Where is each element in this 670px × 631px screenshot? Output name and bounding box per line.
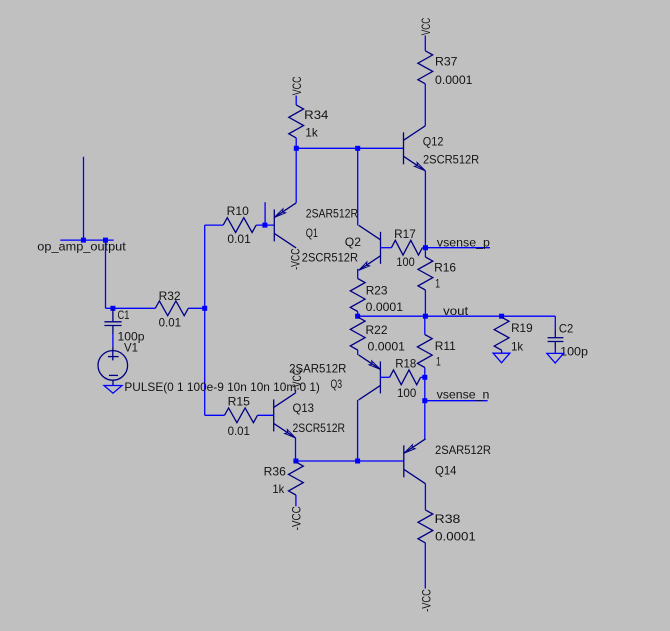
svg-text:R18: R18: [395, 357, 416, 371]
resistor R11: [417, 335, 432, 368]
svg-text:2SAR512R: 2SAR512R: [435, 443, 491, 457]
svg-text:VCC: VCC: [419, 18, 433, 36]
resistor R22: [350, 317, 365, 350]
wire: C1 to V1: [112, 334, 114, 346]
wire: R10 to Q1 base: [256, 224, 274, 226]
ground (R19): [493, 353, 510, 363]
voltage source V1: [98, 351, 128, 381]
wire: to R10: [205, 224, 224, 226]
wire: R22 to Q3 emitter: [357, 350, 359, 355]
junction R32-right column: [202, 306, 207, 311]
capacitor C2: [554, 329, 556, 338]
transistor Q2: [380, 232, 382, 264]
resistor R23: [350, 279, 365, 312]
junction vsense_p: [423, 245, 428, 250]
svg-text:0.0001: 0.0001: [368, 340, 406, 354]
resistor R19: [494, 317, 509, 350]
wire: bottom row to Q14 base: [296, 460, 404, 462]
svg-text:R19: R19: [511, 321, 533, 335]
wire: node to vsense_n: [424, 377, 426, 400]
wire: R16 to vout row: [424, 290, 426, 316]
svg-text:R32: R32: [159, 289, 181, 303]
wire: main row node A to Q12 base: [296, 147, 403, 149]
svg-text:1: 1: [436, 355, 441, 369]
svg-text:-VCC: -VCC: [289, 506, 303, 530]
wire: vsense_n to Q14: [424, 401, 426, 439]
node op_amp_output horizontal wire: [60, 239, 113, 241]
resistor R16: [418, 257, 433, 290]
ground (V1): [104, 386, 122, 394]
junction vsense_n: [422, 398, 427, 403]
svg-text:Q3: Q3: [331, 377, 343, 391]
wire: Q14 collector down: [424, 484, 426, 510]
wire: vertical column R10-R15: [204, 225, 206, 415]
transistor Q13: [273, 399, 275, 431]
wire: stub above Q1 base: [264, 202, 266, 225]
svg-text:0.0001: 0.0001: [435, 530, 476, 544]
svg-text:R15: R15: [228, 395, 251, 409]
junction vout R19: [499, 314, 504, 319]
resistor R10: [223, 218, 256, 233]
wire: Q1 collector up to node A: [295, 148, 297, 203]
junction node A Q2 collector: [355, 146, 360, 151]
svg-text:op_amp_output: op_amp_output: [37, 239, 126, 253]
svg-text:Q12: Q12: [423, 135, 444, 149]
wire: R11 to node: [424, 368, 426, 378]
wire: vsense_p stub: [426, 247, 491, 249]
V1 top lead: [112, 346, 114, 351]
V1 plus sign: [108, 356, 119, 358]
svg-text:Q2: Q2: [345, 235, 362, 249]
svg-text:1: 1: [435, 277, 440, 291]
svg-text:C2: C2: [559, 321, 574, 335]
svg-text:100: 100: [397, 386, 417, 400]
wire: V1 to ground: [112, 380, 114, 385]
wire: Q13 emitter down: [295, 438, 297, 461]
junction R11/R18: [422, 375, 427, 380]
wire: R15 to Q13 base: [258, 414, 274, 416]
junction node A (R34/Q1/row): [294, 146, 299, 151]
ground (C2): [547, 353, 564, 363]
svg-text:R37: R37: [435, 55, 458, 69]
svg-text:R38: R38: [435, 512, 461, 526]
svg-text:2SAR512R: 2SAR512R: [306, 207, 358, 221]
junction op_amp_output B: [103, 238, 108, 243]
svg-text:C1: C1: [118, 308, 130, 322]
wire: vsense_p to R16: [424, 248, 426, 257]
svg-text:-VCC: -VCC: [420, 589, 434, 612]
svg-text:-VCC: -VCC: [290, 369, 304, 391]
resistor R15: [225, 408, 258, 423]
wire: Q2 base to R17: [381, 247, 392, 249]
svg-text:1k: 1k: [305, 125, 318, 139]
transistor Q1: [273, 209, 275, 241]
wire: R17 to vsense_p: [422, 247, 425, 249]
wire: VCC to R34: [295, 96, 297, 105]
wire: Q2 emitter to R23: [357, 269, 359, 279]
junction vout left: [355, 314, 360, 319]
svg-text:0.01: 0.01: [228, 424, 251, 438]
wire: C1 node to R32: [106, 307, 156, 309]
wire: Q13 collector up: [295, 390, 297, 393]
svg-text:1k: 1k: [272, 482, 285, 496]
svg-text:2SCR512R: 2SCR512R: [293, 421, 346, 435]
wire: R18 to R11 node: [421, 376, 425, 378]
svg-text:100p: 100p: [560, 345, 588, 359]
wire: free vertical stub top-left: [83, 157, 85, 240]
junction bottom row Q3: [355, 459, 360, 464]
transistor Q3: [379, 361, 381, 393]
transistor Q14: [403, 445, 405, 477]
resistor R34: [289, 105, 304, 138]
svg-text:vsense_n: vsense_n: [437, 388, 490, 402]
svg-text:R10: R10: [227, 204, 250, 218]
wire: R23 to vout row: [357, 312, 359, 317]
svg-text:0.01: 0.01: [159, 316, 182, 330]
svg-text:2SCR512R: 2SCR512R: [302, 250, 359, 264]
wire: down to C1 row: [105, 240, 107, 308]
svg-text:VCC: VCC: [290, 76, 304, 95]
wire: R36 bottom lead: [295, 495, 297, 506]
resistor R36: [289, 462, 304, 495]
wire: vsense_n stub: [425, 400, 488, 402]
svg-text:2SCR512R: 2SCR512R: [423, 153, 480, 167]
resistor R32: [155, 301, 188, 316]
svg-text:R17: R17: [394, 227, 416, 241]
junction Q1 base: [262, 223, 267, 228]
wire: Q2 collector to node A: [357, 148, 359, 225]
wire: R34 to node A: [295, 138, 297, 148]
resistor R17: [391, 240, 422, 255]
wire: VCC to R37: [424, 36, 426, 51]
svg-text:1k: 1k: [511, 340, 524, 354]
wire: to R15: [205, 414, 225, 416]
wire: C2 drop: [554, 316, 556, 329]
svg-text:-VCC: -VCC: [288, 248, 302, 270]
wire: R38 to -VCC: [424, 543, 426, 589]
svg-text:R11: R11: [435, 339, 456, 353]
junction bottom row Q13: [293, 459, 298, 464]
svg-text:Q1: Q1: [306, 226, 318, 240]
junction op_amp_output A: [81, 238, 86, 243]
resistor R37: [418, 51, 433, 84]
wire: R37 to Q12 collector: [424, 84, 426, 126]
svg-text:Q14: Q14: [435, 464, 457, 478]
svg-text:0.0001: 0.0001: [435, 73, 473, 87]
capacitor C1: [112, 309, 114, 322]
svg-text:Q13: Q13: [293, 401, 315, 415]
wire: R32 right lead: [188, 307, 204, 309]
wire: vout row: [358, 315, 556, 317]
wire: vout to R11: [424, 316, 426, 334]
wire: Q3 collector down: [357, 400, 359, 461]
svg-text:R22: R22: [366, 323, 388, 337]
resistor R38: [418, 510, 433, 543]
svg-text:100: 100: [396, 255, 415, 269]
transistor Q12: [403, 132, 405, 164]
svg-text:vsense_p: vsense_p: [437, 235, 490, 249]
V1 minus sign: [109, 374, 118, 376]
junction C1 top: [110, 306, 115, 311]
svg-text:R34: R34: [304, 108, 329, 122]
svg-text:vout: vout: [443, 304, 469, 318]
svg-text:R23: R23: [366, 284, 388, 298]
junction vout mid: [423, 314, 428, 319]
svg-text:0.01: 0.01: [227, 232, 251, 246]
wire: C2 to ground: [554, 350, 556, 354]
svg-text:0.0001: 0.0001: [366, 300, 404, 314]
svg-text:V1: V1: [124, 340, 138, 354]
wire: Q12 emitter to vsense_p: [424, 171, 426, 248]
wire: R19 to ground: [501, 350, 503, 353]
wire: Q3 base to R18: [380, 376, 389, 378]
svg-text:R36: R36: [264, 465, 287, 479]
svg-text:R16: R16: [434, 261, 456, 275]
resistor R18: [390, 370, 421, 385]
